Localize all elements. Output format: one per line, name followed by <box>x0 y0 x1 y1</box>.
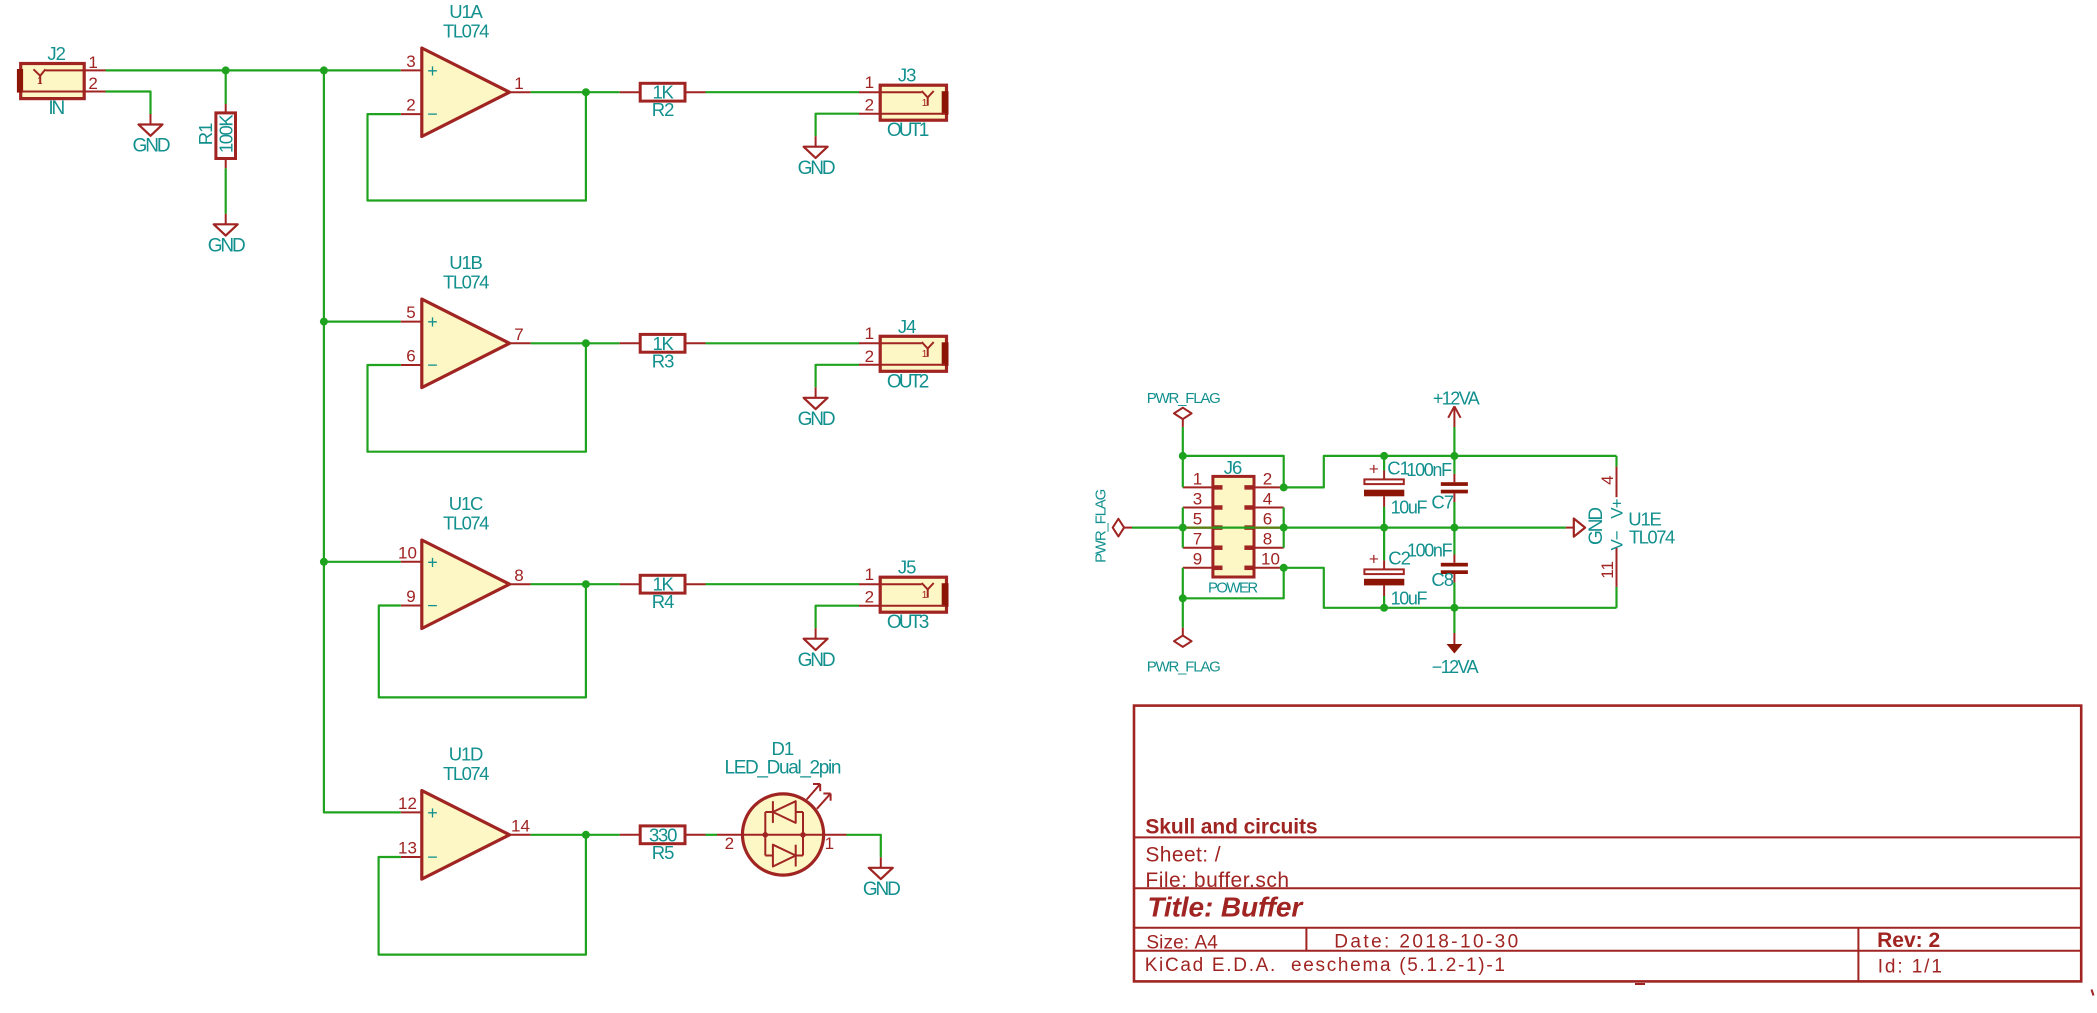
svg-text:7: 7 <box>1193 530 1202 549</box>
svg-text:100nF: 100nF <box>1407 541 1453 561</box>
title kicad <box>1145 955 1507 976</box>
svg-text:U1A: U1A <box>449 1 483 22</box>
junction J6 pin10 <box>1280 564 1288 572</box>
value 10uF <box>1391 589 1428 609</box>
svg-text:1: 1 <box>865 565 874 584</box>
junction GND left <box>1179 524 1187 532</box>
svg-text:2: 2 <box>865 588 874 607</box>
svg-text:−: − <box>427 847 438 867</box>
title id <box>1878 956 1944 977</box>
svg-text:LED_Dual_2pin: LED_Dual_2pin <box>725 758 841 779</box>
svg-text:R4: R4 <box>652 591 674 612</box>
svg-text:10: 10 <box>398 543 417 562</box>
svg-text:TL074: TL074 <box>443 763 489 784</box>
svg-text:Rev: 2: Rev: 2 <box>1877 929 1940 952</box>
wire input bus vertical <box>324 70 401 812</box>
label J3 <box>898 65 916 86</box>
label C2 <box>1388 548 1410 569</box>
svg-text:J6: J6 <box>1224 457 1242 478</box>
svg-text:Skull and circuits: Skull and circuits <box>1145 816 1317 839</box>
label PWR_FLAG (bottom) <box>1147 658 1220 675</box>
svg-text:Size: A4: Size: A4 <box>1146 932 1218 953</box>
svg-text:TL074: TL074 <box>1629 527 1675 548</box>
wire R1 top <box>225 70 227 104</box>
svg-text:12: 12 <box>398 794 417 813</box>
junction U1C output <box>582 580 590 588</box>
label R1 <box>195 123 216 145</box>
svg-text:PWR_FLAG: PWR_FLAG <box>1147 658 1220 675</box>
svg-text:100K: 100K <box>215 114 236 153</box>
op-amp U1A <box>401 48 531 137</box>
svg-text:OUT1: OUT1 <box>887 120 929 141</box>
wire bus to U1C + <box>324 561 401 563</box>
op-amp U1C <box>398 540 531 629</box>
stray mark 1 <box>1635 983 1645 985</box>
label J6 <box>1224 457 1242 478</box>
svg-text:5: 5 <box>1193 510 1202 529</box>
wire R5 to D1 <box>706 834 718 836</box>
label R2 <box>652 99 674 120</box>
ground GND (D1) <box>863 857 900 900</box>
power flag PWR_FLAG (left) <box>1113 519 1132 537</box>
junction U1D output <box>582 831 590 839</box>
svg-text:1: 1 <box>514 74 523 93</box>
svg-text:Sheet: /: Sheet: / <box>1145 843 1221 866</box>
label PWR_FLAG (left) <box>1093 489 1110 562</box>
label TL074 (U1B) <box>443 271 489 292</box>
ground GND (J3) <box>798 136 835 179</box>
svg-text:1: 1 <box>88 53 97 72</box>
svg-text:10uF: 10uF <box>1391 498 1428 518</box>
capacitor C2 (10uF) <box>1364 528 1404 608</box>
svg-text:1: 1 <box>922 590 928 601</box>
svg-text:13: 13 <box>398 839 417 858</box>
label J5 <box>898 557 916 578</box>
svg-text:6: 6 <box>1263 510 1272 529</box>
resistor R3 <box>620 334 706 352</box>
svg-text:1: 1 <box>922 349 928 360</box>
svg-text:1: 1 <box>865 73 874 92</box>
svg-text:+: + <box>1369 460 1379 479</box>
ground GND (J5) <box>798 628 835 671</box>
svg-text:GND: GND <box>798 158 835 179</box>
label GND (power) <box>1586 508 1607 545</box>
svg-text:R5: R5 <box>652 842 674 863</box>
label U1C <box>449 493 483 514</box>
svg-text:GND: GND <box>133 136 170 157</box>
svg-text:3: 3 <box>406 52 415 71</box>
value 100K <box>215 114 236 153</box>
title file <box>1145 869 1289 892</box>
ground GND (J4) <box>798 387 835 430</box>
wire +12V top rail left <box>1183 456 1284 488</box>
wire J2 pin2 to GND <box>106 92 151 115</box>
title sheet <box>1145 843 1221 866</box>
junction C2 bottom <box>1380 604 1388 612</box>
svg-text:POWER: POWER <box>1208 579 1258 596</box>
label D1 <box>771 738 793 759</box>
wire feedback U1B <box>368 343 586 451</box>
svg-text:J2: J2 <box>47 43 65 64</box>
svg-text:+: + <box>1369 550 1379 569</box>
label C8 <box>1431 569 1453 590</box>
ground GND (R1) <box>208 214 245 257</box>
svg-text:OUT3: OUT3 <box>887 612 929 633</box>
svg-text:PWR_FLAG: PWR_FLAG <box>1093 489 1110 562</box>
label R5 <box>652 842 674 863</box>
wire -12V bracket <box>1183 568 1284 599</box>
wire GND mid rail <box>1132 526 1566 528</box>
op-amp U1E pin 4 (V+) <box>1598 456 1627 519</box>
svg-text:+: + <box>427 552 438 572</box>
svg-text:100nF: 100nF <box>1406 460 1452 480</box>
svg-text:2: 2 <box>865 347 874 366</box>
junction U1A output <box>582 88 590 96</box>
svg-text:4: 4 <box>1263 489 1272 508</box>
label OUT3 <box>887 612 929 633</box>
wire U1C output <box>531 583 620 585</box>
svg-text:V+: V+ <box>1608 498 1627 518</box>
ground GND (J2 pin2) <box>133 114 170 157</box>
power flag PWR_FLAG (bottom) <box>1174 628 1192 647</box>
label POWER <box>1208 579 1258 596</box>
power -12VA <box>1447 608 1463 654</box>
svg-text:14: 14 <box>511 817 530 836</box>
svg-text:−: − <box>427 104 438 124</box>
svg-text:−: − <box>427 355 438 375</box>
wire J3 pin2 to GND <box>816 114 859 137</box>
svg-text:GND: GND <box>208 236 245 257</box>
value 1K <box>652 574 674 595</box>
title company name <box>1145 816 1317 839</box>
wire -12V jog <box>1284 568 1617 608</box>
svg-text:D1: D1 <box>771 738 793 759</box>
connector J2 (audio jack, IN) <box>17 53 106 98</box>
overlap pin6 <box>1254 527 1284 529</box>
svg-text:6: 6 <box>406 347 415 366</box>
svg-text:9: 9 <box>406 587 415 606</box>
value 10uF <box>1391 498 1428 518</box>
junction bus/U1C input <box>320 558 328 566</box>
wire bus pin1 <box>1182 456 1184 488</box>
svg-text:−: − <box>427 596 438 616</box>
resistor R2 <box>620 83 706 101</box>
label OUT1 <box>887 120 929 141</box>
junction at bus/top wire <box>320 66 328 74</box>
label R4 <box>652 591 674 612</box>
junction U1B output <box>582 339 590 347</box>
overlap pin5 <box>1183 527 1213 529</box>
label LED_Dual_2pin <box>725 758 841 779</box>
wire R1 bottom <box>225 168 227 214</box>
svg-text:+: + <box>427 61 438 81</box>
svg-text:PWR_FLAG: PWR_FLAG <box>1147 390 1220 407</box>
wire +12V jog <box>1284 456 1617 488</box>
power flag PWR_FLAG (top) <box>1174 408 1192 427</box>
op-amp U1E pin 11 (V-) <box>1598 530 1627 608</box>
wire feedback U1A <box>368 92 586 200</box>
wire U1D output <box>531 834 620 836</box>
svg-text:4: 4 <box>1598 475 1617 484</box>
svg-text:TL074: TL074 <box>443 20 489 41</box>
label R3 <box>652 350 674 371</box>
svg-text:Id: 1/1: Id: 1/1 <box>1878 956 1944 977</box>
svg-text:7: 7 <box>514 325 523 344</box>
wire U1B output <box>531 342 620 344</box>
title rev <box>1877 929 1940 952</box>
svg-text:TL074: TL074 <box>443 512 489 533</box>
svg-text:U1D: U1D <box>449 744 483 765</box>
label J2 <box>47 43 65 64</box>
svg-text:V−: V− <box>1608 530 1627 550</box>
value 1K <box>652 82 674 103</box>
svg-text:IN: IN <box>48 98 64 119</box>
junction C1 bottom <box>1380 524 1388 532</box>
capacitor C8 (100nF) <box>1441 528 1468 608</box>
svg-text:J3: J3 <box>898 65 916 86</box>
junction +12V top flag <box>1179 452 1187 460</box>
capacitor C1 (10uF) <box>1364 456 1404 528</box>
svg-text:File: buffer.sch: File: buffer.sch <box>1145 869 1289 892</box>
svg-text:1: 1 <box>37 76 43 87</box>
power +12VA <box>1448 406 1460 456</box>
resistor R1 <box>216 104 236 168</box>
wire bus to U1B + <box>324 321 401 323</box>
svg-text:R2: R2 <box>652 99 674 120</box>
junction C7 bottom <box>1450 524 1458 532</box>
junction GND pin6 <box>1280 524 1288 532</box>
junction J6 pin2 <box>1280 483 1288 491</box>
svg-text:GND: GND <box>798 650 835 671</box>
value 1K <box>652 333 674 354</box>
wire R3 to J4 <box>706 342 860 344</box>
LED D1 (dual 2-pin) <box>717 784 847 875</box>
svg-text:2: 2 <box>725 834 734 853</box>
label C7 <box>1431 491 1453 512</box>
label U1A <box>449 1 483 22</box>
junction C1 top <box>1380 452 1388 460</box>
svg-text:1: 1 <box>825 834 834 853</box>
svg-text:3: 3 <box>1193 489 1202 508</box>
label OUT2 <box>887 371 929 392</box>
svg-text:J4: J4 <box>898 316 916 337</box>
svg-text:C7: C7 <box>1431 491 1453 512</box>
value 100nF <box>1406 460 1452 480</box>
svg-text:1: 1 <box>865 324 874 343</box>
label TL074 (U1C) <box>443 512 489 533</box>
svg-text:2: 2 <box>865 96 874 115</box>
connector J6 (POWER header) <box>1183 469 1284 577</box>
svg-text:C8: C8 <box>1431 569 1453 590</box>
svg-text:KiCad E.D.A. eeschema (5.1.2-: KiCad E.D.A. eeschema (5.1.2-1)-1 <box>1145 955 1507 976</box>
wire GND bracket left <box>1182 508 1184 548</box>
svg-text:10: 10 <box>1261 550 1280 569</box>
svg-text:2: 2 <box>1263 469 1272 488</box>
svg-text:TL074: TL074 <box>443 271 489 292</box>
svg-text:GND: GND <box>798 409 835 430</box>
svg-text:U1B: U1B <box>449 252 482 273</box>
svg-text:GND: GND <box>863 879 900 900</box>
svg-text:Title: Buffer: Title: Buffer <box>1147 892 1304 923</box>
svg-text:8: 8 <box>514 566 523 585</box>
svg-text:U1C: U1C <box>449 493 483 514</box>
title size <box>1146 932 1218 953</box>
svg-text:+: + <box>427 803 438 823</box>
title text <box>1147 892 1304 923</box>
label +12VA <box>1433 388 1480 408</box>
svg-text:8: 8 <box>1263 530 1272 549</box>
label C1 <box>1387 458 1409 479</box>
svg-text:OUT2: OUT2 <box>887 371 929 392</box>
junction C7 top <box>1450 452 1458 460</box>
resistor R4 <box>620 575 706 593</box>
svg-text:1: 1 <box>922 98 928 109</box>
svg-text:+12VA: +12VA <box>1433 388 1480 408</box>
capacitor C7 (100nF) <box>1441 456 1468 528</box>
svg-text:R1: R1 <box>195 123 216 145</box>
stray mark 2 <box>2092 990 2094 996</box>
label TL074 (U1D) <box>443 763 489 784</box>
svg-text:11: 11 <box>1598 561 1617 579</box>
op-amp U1D <box>398 791 531 880</box>
wire R2 to J3 <box>706 91 860 93</box>
wire U1A output <box>531 91 620 93</box>
svg-text:10uF: 10uF <box>1391 589 1428 609</box>
resistor R5 <box>620 826 706 844</box>
connector J3 (audio jack, OUT1) <box>859 73 949 120</box>
value 330 <box>649 824 677 845</box>
svg-text:2: 2 <box>88 74 97 93</box>
wire PWR_FLAG top to +12V node <box>1182 427 1184 456</box>
wire J4 pin2 to GND <box>816 365 859 388</box>
connector J4 (audio jack, OUT2) <box>859 324 949 371</box>
junction -12V left <box>1179 594 1187 602</box>
title date <box>1334 932 1520 953</box>
wire D1 pin1 to GND <box>847 835 881 858</box>
junction C8 bottom <box>1450 604 1458 612</box>
svg-text:+: + <box>427 312 438 332</box>
label -12VA <box>1432 657 1479 677</box>
value 100nF <box>1407 541 1453 561</box>
wire J5 pin2 to GND <box>816 606 859 629</box>
svg-text:Date: 2018-10-30: Date: 2018-10-30 <box>1334 932 1520 953</box>
op-amp U1B <box>401 299 531 388</box>
wire feedback U1C <box>379 584 586 697</box>
svg-text:1: 1 <box>1193 469 1202 488</box>
ground GND (power, right) <box>1566 519 1585 537</box>
wire R4 to J5 <box>706 583 860 585</box>
junction bus/U1B input <box>320 318 328 326</box>
label J4 <box>898 316 916 337</box>
label IN <box>48 98 64 119</box>
wire feedback U1D <box>379 835 586 955</box>
label PWR_FLAG (top) <box>1147 390 1220 407</box>
svg-text:GND: GND <box>1586 508 1607 545</box>
label TL074 (U1E) <box>1629 527 1675 548</box>
label U1B <box>449 252 482 273</box>
svg-text:9: 9 <box>1193 550 1202 569</box>
label U1E <box>1628 508 1661 529</box>
title block frame <box>1134 706 2081 982</box>
svg-text:R3: R3 <box>652 350 674 371</box>
svg-text:J5: J5 <box>898 557 916 578</box>
svg-text:5: 5 <box>406 303 415 322</box>
svg-text:2: 2 <box>406 96 415 115</box>
junction at R1/top wire <box>222 66 230 74</box>
wire PWR_FLAG bottom stub <box>1182 598 1184 627</box>
label U1D <box>449 744 483 765</box>
svg-text:−12VA: −12VA <box>1432 657 1479 677</box>
wire J2 pin1 to input bus <box>106 69 401 71</box>
wire GND bracket right <box>1283 508 1285 548</box>
label TL074 (U1A) <box>443 20 489 41</box>
connector J5 (audio jack, OUT3) <box>859 565 949 612</box>
